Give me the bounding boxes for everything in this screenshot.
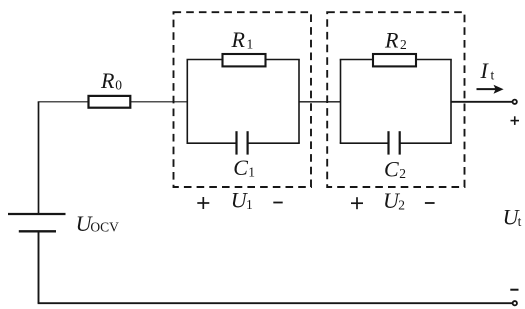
wire: loop2 top right segment (416, 59, 452, 61)
svg-text:C: C (233, 155, 248, 180)
wire: loop1 bottom left segment (187, 142, 237, 144)
wire: loop1 top right segment (266, 59, 300, 61)
wire: R0 to first RC loop (131, 101, 188, 103)
dashed box 2 (327, 12, 464, 187)
svg-text:1: 1 (247, 37, 254, 52)
svg-text:2: 2 (400, 37, 407, 52)
label R0 (100, 68, 122, 93)
svg-text:1: 1 (248, 165, 255, 180)
plus sign at positive terminal (511, 116, 520, 125)
battery U_OCV short plate (19, 230, 56, 232)
wire: loop2 top left segment (340, 59, 373, 61)
wire: battery bottom vertical (38, 231, 40, 303)
wire: loop1 top left segment (187, 59, 223, 61)
label R2 (384, 28, 407, 53)
svg-text:R: R (231, 27, 246, 52)
wire: loop2 right vertical (450, 60, 452, 144)
svg-text:2: 2 (398, 198, 405, 213)
plus sign of U1 (197, 197, 209, 209)
svg-text:1: 1 (246, 197, 253, 212)
resistor R0 (89, 96, 131, 108)
svg-text:t: t (518, 214, 522, 229)
current arrow I_t (477, 88, 496, 90)
svg-text:R: R (384, 28, 399, 53)
wire: battery top vertical (38, 102, 40, 214)
capacitor C2 right plate (399, 131, 401, 154)
wire: top horizontal from battery to R0 (38, 101, 88, 103)
label U_t (503, 205, 522, 230)
label U2 (383, 188, 405, 213)
label U1 (231, 188, 253, 213)
battery U_OCV long plate (8, 213, 66, 215)
svg-text:2: 2 (399, 166, 406, 181)
minus sign at negative terminal (510, 289, 518, 291)
wire: between loop1 and loop2 (crosses dashed edges) (299, 101, 342, 103)
wire: loop2 bottom right segment (400, 142, 452, 144)
wire: loop2 to output terminal (451, 101, 513, 103)
wire: bottom return (38, 302, 513, 304)
capacitor C2 left plate (387, 131, 389, 154)
wire: loop1 right vertical (298, 60, 300, 144)
label C1 (233, 155, 255, 180)
wire: loop2 left vertical (340, 60, 342, 144)
resistor R2 (373, 54, 416, 66)
label U_OCV (76, 211, 120, 236)
label C2 (384, 157, 406, 182)
terminal node: negative output (513, 301, 517, 305)
label I_t (480, 58, 495, 83)
svg-text:R: R (100, 68, 115, 93)
dashed box 1 (174, 12, 312, 187)
label R1 (231, 27, 254, 52)
minus sign of U2 (425, 202, 435, 204)
capacitor C1 left plate (235, 131, 237, 154)
plus sign of U2 (351, 197, 363, 209)
wire: loop1 left vertical (186, 60, 188, 144)
svg-text:OCV: OCV (90, 220, 119, 235)
wire: loop2 bottom left segment (340, 142, 389, 144)
minus sign of U1 (273, 202, 282, 204)
resistor R1 (223, 54, 266, 66)
svg-text:C: C (384, 157, 399, 182)
terminal node: positive output (513, 100, 517, 104)
capacitor C1 right plate (247, 131, 249, 154)
svg-text:t: t (491, 68, 495, 83)
wire: loop1 bottom right segment (248, 142, 300, 144)
svg-text:0: 0 (115, 77, 122, 92)
